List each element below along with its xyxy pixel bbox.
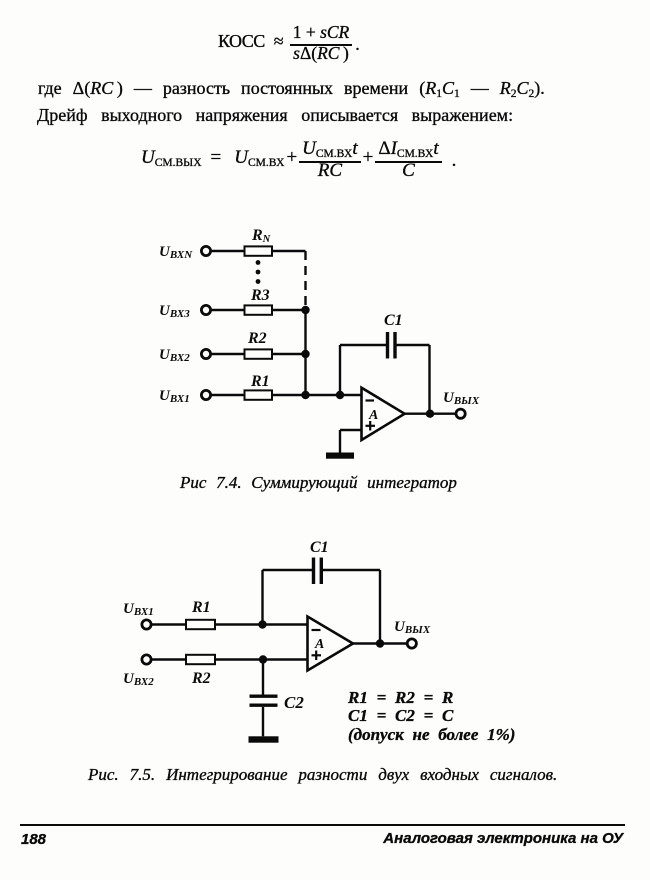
caption fig 7.4 <box>180 473 457 493</box>
wire feedback top right <box>396 344 429 346</box>
caption fig 7.5 <box>88 765 557 785</box>
ground <box>326 453 354 459</box>
resistor RN <box>245 246 273 255</box>
wire R3 to bus <box>272 309 306 311</box>
svg-text:UВХ1: UВХ1 <box>123 601 154 618</box>
wire feedback right vertical <box>379 570 381 644</box>
junction R2/bus <box>301 350 309 358</box>
svg-text:A: A <box>314 637 324 652</box>
junction inverting node <box>258 620 266 628</box>
svg-text:UВЫХ: UВЫХ <box>394 619 431 636</box>
svg-text:A: A <box>368 408 378 423</box>
node Uвх1 input terminal <box>142 620 151 629</box>
op-amp minus sign <box>366 399 375 401</box>
ground <box>249 736 279 742</box>
resistor R1 <box>245 390 273 399</box>
junction R1/bus <box>301 391 309 399</box>
op-amp minus sign <box>312 629 321 631</box>
op-amp plus sign <box>366 425 376 427</box>
svg-text:RN: RN <box>251 227 271 245</box>
component value notes <box>348 689 515 744</box>
svg-text:R2: R2 <box>191 670 211 687</box>
node Uвых output terminal <box>456 409 465 418</box>
node Uвх2 input terminal <box>201 349 210 358</box>
resistor R3 <box>245 305 273 314</box>
formula KOCC approx (1+sCR)/(s Delta(RC)) <box>218 22 360 61</box>
wire feedback top left <box>340 344 386 346</box>
wire C2 to ground <box>262 707 264 736</box>
wire feedback left vertical <box>339 345 341 395</box>
capacitor C1 <box>312 558 315 585</box>
svg-text:UВЫХ: UВЫХ <box>443 390 480 407</box>
bus vertical wire <box>304 310 306 395</box>
op-amp plus sign <box>312 654 322 656</box>
svg-text:UВХ3: UВХ3 <box>159 303 190 320</box>
svg-text:UВХN: UВХN <box>159 244 193 261</box>
running title <box>300 830 623 847</box>
op-amp A <box>308 617 354 671</box>
wire Uвх2 to R2 <box>211 353 244 355</box>
wire feedback top right <box>323 569 381 571</box>
svg-text:R3: R3 <box>250 287 270 304</box>
node Uвых output terminal <box>407 639 416 648</box>
op-amp A <box>362 388 405 440</box>
resistor R1 <box>186 620 215 629</box>
wire feedback right vertical <box>428 345 430 414</box>
wire noninverting input <box>340 429 362 431</box>
paragraph line 2 <box>37 105 513 126</box>
resistor R2 <box>186 655 215 664</box>
wire node to C2 <box>262 660 264 695</box>
node Uвх2 input terminal <box>142 655 151 664</box>
resistor R2 <box>245 349 273 358</box>
circuit: summing integrator (fig 7.4) <box>140 220 500 470</box>
wire Uвх1 to R1 <box>152 623 186 625</box>
junction output/feedback <box>426 410 434 418</box>
wire feedback top left <box>263 569 313 571</box>
wire R2 to bus <box>272 353 306 355</box>
wire op-amp output <box>353 642 407 644</box>
node Uвх1 input terminal <box>201 390 210 399</box>
wire R2 to op-amp noninverting input <box>215 658 308 660</box>
svg-text:R1: R1 <box>191 599 211 616</box>
svg-text:C1: C1 <box>384 312 403 329</box>
formula U_CM.VYH <box>141 138 456 178</box>
svg-text:UВХ2: UВХ2 <box>123 671 154 688</box>
wire R1 to op-amp inverting input <box>215 623 308 625</box>
dashed bus segment <box>304 251 306 310</box>
page number <box>21 831 46 848</box>
wire UвхN to RN <box>211 250 244 252</box>
node Uвх3 input terminal <box>201 305 210 314</box>
footer rule <box>20 824 625 826</box>
svg-text:C2: C2 <box>284 693 304 712</box>
svg-text:R2: R2 <box>247 330 267 347</box>
wire feedback left vertical <box>261 570 263 625</box>
svg-text:UВХ1: UВХ1 <box>159 388 190 405</box>
ellipsis dots <box>256 260 261 265</box>
wire R1 to op-amp inverting input <box>272 394 362 396</box>
junction output/feedback <box>376 639 384 647</box>
svg-text:R1: R1 <box>250 373 270 390</box>
wire to ground <box>339 430 341 453</box>
svg-text:UВХ2: UВХ2 <box>159 347 190 364</box>
wire Uвх1 to R1 <box>211 394 244 396</box>
node UвхN input terminal <box>201 246 210 255</box>
wire Uвх3 to R3 <box>211 309 244 311</box>
capacitor C1 <box>386 332 389 359</box>
junction noninverting node <box>259 655 267 663</box>
svg-text:C1: C1 <box>310 539 329 556</box>
junction feedback tap <box>336 391 344 399</box>
paragraph line 1 <box>38 78 545 99</box>
wire op-amp output <box>405 413 456 415</box>
junction R3/bus <box>301 306 309 314</box>
wire RN to dashed bus <box>272 250 306 252</box>
circuit: difference integrator (fig 7.5) <box>115 530 445 755</box>
capacitor C2 <box>250 695 278 698</box>
wire Uвх2 to R2 <box>152 658 186 660</box>
